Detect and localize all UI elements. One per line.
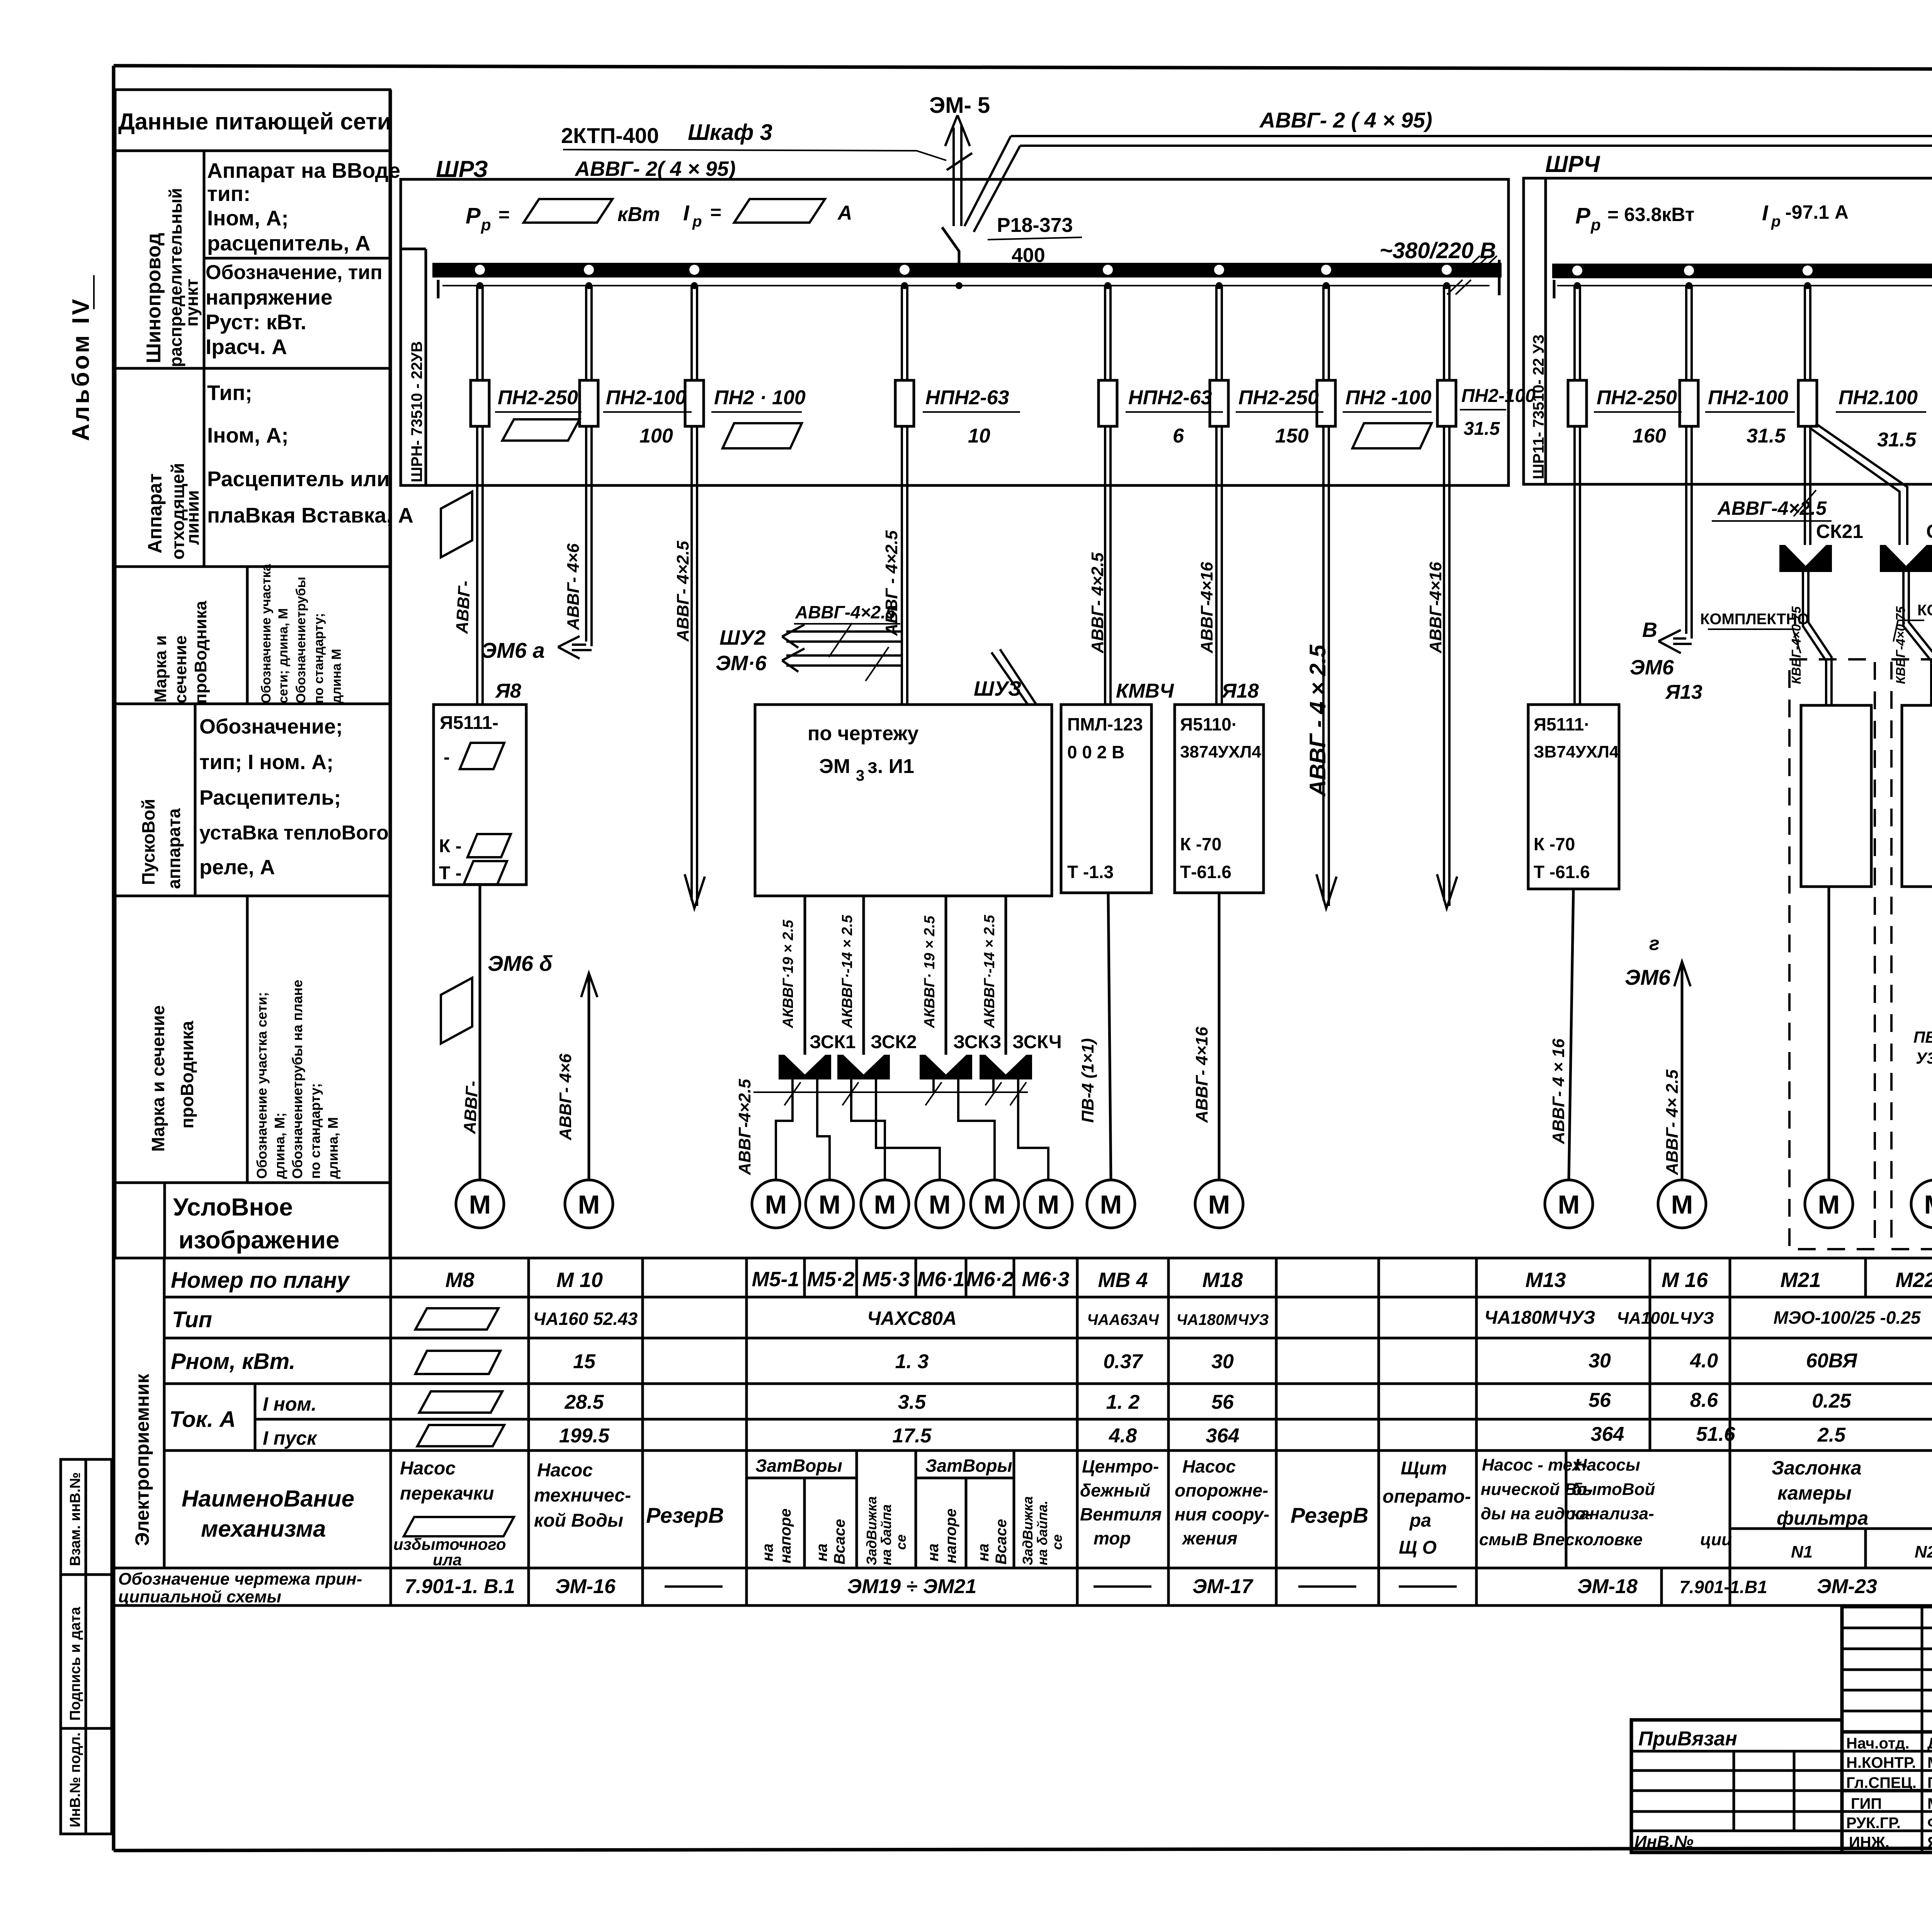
svg-text:ЗСК1: ЗСК1 [810, 1032, 856, 1052]
svg-text:ПМЛ-123: ПМЛ-123 [1067, 714, 1143, 734]
svg-text:ПН2-250: ПН2-250 [498, 386, 578, 409]
svg-text:3.5: 3.5 [898, 1391, 926, 1413]
svg-text:АВВГ-: АВВГ- [460, 1080, 482, 1134]
valve ЗСК3 gate symbol [920, 1055, 972, 1079]
svg-text:= 63.8кВт: = 63.8кВт [1607, 204, 1694, 225]
svg-text:К -70: К -70 [1180, 834, 1221, 854]
svg-text:ШУ2: ШУ2 [719, 626, 765, 649]
svg-text:длина М: длина М [329, 649, 344, 703]
motor М22 [1911, 1180, 1932, 1228]
svg-text:3874УХЛ4: 3874УХЛ4 [1180, 742, 1261, 761]
starter Я13 box Я5111 [1528, 705, 1619, 889]
svg-text:ИНЖ.: ИНЖ. [1849, 1834, 1889, 1851]
svg-text:Iрасч. А: Iрасч. А [206, 335, 287, 359]
motor М8 [456, 1180, 504, 1228]
svg-text:М: М [1671, 1190, 1693, 1219]
svg-text:Обозначение участка: Обозначение участка [259, 564, 274, 703]
svg-text:М8: М8 [445, 1268, 474, 1292]
svg-text:ЭМ- 5: ЭМ- 5 [929, 93, 990, 118]
svg-text:М: М [469, 1190, 491, 1219]
fuse ПН2-100/100 (f2) [580, 380, 692, 447]
svg-text:р: р [1771, 213, 1781, 230]
switch label ПВ3-10 У356 SАВ1 [1913, 1028, 1932, 1094]
svg-text:31.5: 31.5 [1464, 419, 1500, 439]
svg-text:М 16: М 16 [1662, 1268, 1708, 1292]
fuse ПН2-100 (f3) [685, 380, 806, 448]
svg-text:распределительный: распределительный [166, 188, 185, 367]
svg-text:31.5: 31.5 [1877, 429, 1917, 451]
svg-text:НПН2-63: НПН2-63 [925, 386, 1009, 409]
svg-text:ции: ции [1700, 1530, 1732, 1549]
svg-text:Iном, А;: Iном, А; [207, 423, 289, 447]
label КОМПЛЕКТНО (М22) [1893, 602, 1932, 642]
svg-text:ЧА180МЧУЗ: ЧА180МЧУЗ [1484, 1308, 1595, 1328]
fuse ПН2-100/31.5 (g2) [1680, 380, 1795, 447]
svg-text:М: М [929, 1190, 951, 1219]
valve СК21 symbol [1779, 545, 1832, 572]
svg-text:М6·3: М6·3 [1022, 1268, 1069, 1291]
svg-text:Т -1.3: Т -1.3 [1067, 862, 1114, 882]
wire ШУ3 output 1 [804, 896, 806, 1055]
valve ЗСК1 gate symbol [779, 1055, 831, 1079]
svg-text:Обозначение;: Обозначение; [199, 715, 343, 738]
svg-text:Т-61.6: Т-61.6 [1180, 862, 1231, 882]
svg-text:N2: N2 [1915, 1542, 1932, 1561]
svg-text:ЧА100LЧУЗ: ЧА100LЧУЗ [1617, 1309, 1714, 1328]
svg-text:364: 364 [1206, 1425, 1240, 1447]
table Наименование М8 (Насос перекачки избыточного ила) [393, 1458, 514, 1569]
cable label АВВГ- with parallelogram (feeder1) [441, 492, 474, 635]
parallelogram Iном М8 [419, 1391, 502, 1413]
svg-text:М: М [1208, 1190, 1230, 1219]
svg-text:ПН2-250: ПН2-250 [1238, 386, 1319, 409]
svg-text:8.6: 8.6 [1690, 1389, 1718, 1411]
svg-text:сети; длина, М: сети; длина, М [276, 608, 291, 703]
svg-text:М: М [1558, 1190, 1580, 1219]
svg-text:КВВГ-4×0.75: КВВГ-4×0.75 [1893, 606, 1908, 684]
svg-text:техничес-: техничес- [534, 1485, 631, 1506]
svg-text:фильтра: фильтра [1777, 1507, 1868, 1529]
svg-text:160: 160 [1633, 425, 1666, 447]
bus ШР4 main busbar [1552, 258, 1932, 298]
svg-text:М: М [1037, 1190, 1060, 1219]
wire feeder 3 (bus1) long down arrow [685, 286, 705, 908]
svg-text:-: - [444, 747, 450, 768]
svg-text:ципиальной схемы: ципиальной схемы [118, 1587, 281, 1606]
svg-text:Электроприемник: Электроприемник [131, 1374, 153, 1546]
svg-text:напоре: напоре [777, 1508, 794, 1563]
wire feeder 4 (bus1) to ШУ3 [902, 286, 907, 705]
svg-text:Марка и: Марка и [151, 635, 170, 703]
left margin stamp column [61, 1459, 112, 1834]
svg-text:АВВГ-4×2.5: АВВГ-4×2.5 [1717, 497, 1827, 519]
svg-text:ДАНИЛОВ: ДАНИЛОВ [1927, 1735, 1932, 1752]
svg-text:АВВГ- 4× 2.5: АВВГ- 4× 2.5 [1663, 1069, 1682, 1175]
svg-text:М22: М22 [1895, 1268, 1932, 1292]
svg-text:51.6: 51.6 [1696, 1423, 1735, 1445]
cable label АВВГ-4х2.5 above СК21-СК22 [1712, 490, 1832, 521]
svg-text:по чертежу: по чертежу [808, 722, 918, 745]
svg-text:ШР11- 73510- 22 УЗ: ШР11- 73510- 22 УЗ [1530, 334, 1547, 479]
motor М21 [1805, 1180, 1853, 1228]
signature names column [1927, 1735, 1932, 1851]
svg-text:ЧАА63АЧ: ЧАА63АЧ [1087, 1311, 1159, 1328]
svg-text:-97.1 А: -97.1 А [1785, 201, 1849, 223]
header band 5 box (Марка и сечение проводника 2) [115, 896, 390, 1183]
svg-text:Р: Р [1575, 203, 1590, 228]
svg-text:Я13: Я13 [1665, 681, 1702, 703]
svg-text:Р18-373: Р18-373 [997, 214, 1073, 237]
svg-text:6: 6 [1173, 425, 1184, 447]
svg-text:Насос: Насос [400, 1458, 456, 1479]
wire Я18 to motor М18 [1218, 893, 1221, 1180]
svg-text:Щ О: Щ О [1399, 1537, 1437, 1558]
wire ШУ3 output 2 [862, 896, 865, 1055]
svg-text:4.8: 4.8 [1109, 1425, 1137, 1447]
svg-text:150: 150 [1275, 425, 1309, 447]
header band 1 box (Шинопровод распределительный пункт) [115, 151, 400, 368]
svg-text:жения: жения [1181, 1528, 1237, 1548]
svg-text:операто-: операто- [1383, 1486, 1471, 1507]
continuation arrow г ЭМ6 and wire to М16 [1625, 933, 1690, 1180]
svg-text:реле, А: реле, А [199, 856, 275, 879]
svg-text:Я5110·: Я5110· [1180, 714, 1237, 734]
wire feeder 2 (bus2) continuation В ЭМ6 [1630, 286, 1692, 679]
motor М18 [1195, 1180, 1243, 1228]
svg-text:АВВГ- 4×16: АВВГ- 4×16 [1192, 1027, 1211, 1123]
svg-text:ПН2 -100: ПН2 -100 [1345, 386, 1431, 409]
signature labels column [1846, 1735, 1917, 1851]
svg-text:М: М [1100, 1190, 1122, 1219]
fuse ПН2-250 (f1) [471, 380, 582, 441]
svg-text:на: на [975, 1544, 992, 1561]
starter Я18 box Я5110 [1175, 705, 1264, 893]
svg-text:N1: N1 [1791, 1542, 1813, 1561]
svg-text:30: 30 [1588, 1350, 1611, 1372]
svg-text:АКВВГ·-14 × 2.5: АКВВГ·-14 × 2.5 [839, 914, 855, 1028]
svg-text:31.5: 31.5 [1747, 425, 1786, 447]
svg-text:ЭМ6 а: ЭМ6 а [481, 638, 545, 662]
fuse ПН2-100 (f7) [1317, 380, 1432, 448]
wire cable route АВВГ-2(4х95) to bus2 [1011, 136, 1932, 146]
svg-text:4.0: 4.0 [1690, 1350, 1718, 1372]
svg-text:АВВГ- 2 ( 4 × 95): АВВГ- 2 ( 4 × 95) [1259, 108, 1432, 132]
svg-text:Тип;: Тип; [207, 381, 252, 405]
svg-text:~380/220 В: ~380/220 В [1379, 238, 1496, 263]
motor М5-2 [806, 1180, 854, 1228]
table row Iном values [564, 1389, 1932, 1415]
svg-text:ЭМ-23: ЭМ-23 [1817, 1575, 1877, 1598]
svg-text:изображение: изображение [179, 1226, 340, 1254]
svg-text:ЭМ6: ЭМ6 [1625, 965, 1671, 989]
svg-text:ЗатВоры: ЗатВоры [925, 1456, 1012, 1476]
svg-text:проВодника: проВодника [177, 1021, 197, 1129]
svg-text:28.5: 28.5 [564, 1391, 604, 1413]
ShR3 cabinet enclosure box [401, 179, 1509, 485]
motor М6-2 [971, 1180, 1019, 1228]
wire feeder 2 (bus1) [586, 286, 592, 646]
motor М13 [1545, 1180, 1593, 1228]
svg-text:МОСЕЕНКО: МОСЕЕНКО [1927, 1795, 1932, 1812]
table Наименование Задвижка на байпасе 1 [864, 1496, 909, 1565]
svg-text:канализа-: канализа- [1571, 1504, 1654, 1523]
svg-text:МОСЕЕНКО: МОСЕЕНКО [1927, 1754, 1932, 1771]
wire СК22 to unit М22 [1903, 572, 1932, 705]
svg-text:механизма: механизма [201, 1516, 326, 1542]
svg-text:199.5: 199.5 [559, 1425, 610, 1447]
table grid vertical lines [164, 90, 1932, 1605]
table row Рном values [573, 1350, 1932, 1375]
title block outer box [1842, 1607, 1932, 1852]
svg-text:δежный: δежный [1080, 1480, 1150, 1500]
stamp Привязан box [1631, 1720, 1842, 1852]
svg-text:тор: тор [1094, 1528, 1131, 1548]
svg-text:М6·1: М6·1 [917, 1268, 964, 1291]
svg-text:РУК.ГР.: РУК.ГР. [1846, 1815, 1901, 1832]
svg-text:М 10: М 10 [556, 1268, 603, 1292]
svg-text:Обозначение участка сети;: Обозначение участка сети; [254, 992, 270, 1179]
svg-text:ЧАХС80А: ЧАХС80А [867, 1308, 957, 1329]
svg-text:тип; I ном. А;: тип; I ном. А; [199, 751, 333, 774]
svg-text:Насос: Насос [1182, 1456, 1236, 1476]
table Наименование М18 (Насос опорожнения сооружения) [1175, 1456, 1269, 1548]
svg-text:М: М [1924, 1190, 1932, 1219]
svg-text:г: г [1649, 933, 1660, 954]
svg-text:Обозначение, тип: Обозначение, тип [206, 261, 383, 284]
table Наименование МВ4 (Центробежный вентилятор) [1080, 1456, 1162, 1548]
svg-text:δытоВой: δытоВой [1572, 1480, 1655, 1499]
svg-text:56: 56 [1588, 1389, 1611, 1411]
svg-text:М: М [819, 1190, 841, 1219]
svg-text:I: I [1762, 201, 1769, 225]
wire Я13 to motor М13 [1569, 889, 1573, 1180]
svg-text:Щит: Щит [1401, 1458, 1447, 1479]
svg-text:М: М [984, 1190, 1006, 1219]
svg-text:А: А [837, 202, 852, 224]
svg-text:ЭМ-16: ЭМ-16 [555, 1575, 616, 1598]
svg-text:ила: ила [433, 1551, 462, 1569]
svg-text:3: 3 [856, 767, 864, 784]
svg-text:Аппарат: Аппарат [144, 473, 166, 553]
svg-text:Вентиля: Вентиля [1080, 1504, 1162, 1524]
wire ШУ3 output 4 [1005, 896, 1007, 1055]
fuse ПН2.100/31.5 (g3) [1798, 380, 1926, 451]
fuse НПН2-63/10 (f4) [895, 380, 1020, 447]
svg-text:Обозначение чертежа прин-: Обозначение чертежа прин- [118, 1570, 362, 1588]
svg-text:К -: К - [439, 836, 462, 856]
table Наименование М10 (Насос технической воды) [534, 1460, 631, 1531]
svg-text:Гл.СПЕЦ.: Гл.СПЕЦ. [1846, 1774, 1917, 1791]
svg-text:ЗСК2: ЗСК2 [871, 1032, 917, 1052]
svg-text:Рном, кВт.: Рном, кВт. [171, 1349, 295, 1374]
svg-text:на: на [925, 1544, 942, 1561]
svg-text:пункт: пункт [182, 279, 202, 327]
svg-text:ПриВязан: ПриВязан [1638, 1728, 1737, 1750]
svg-text:Центро-: Центро- [1082, 1456, 1159, 1476]
supply label 2КТП-400 Шкаф 3 / АВВГ-2(4х95) [561, 120, 946, 180]
svg-text:ПН2-250: ПН2-250 [1597, 386, 1677, 409]
wire СК21 to unit М21 [1803, 572, 1832, 705]
svg-text:ШУЗ: ШУЗ [974, 677, 1021, 700]
motor М6-3 [1024, 1180, 1072, 1228]
svg-text:I пуск: I пуск [263, 1427, 318, 1449]
svg-text:Т -: Т - [439, 863, 462, 884]
svg-text:2.5: 2.5 [1817, 1424, 1846, 1446]
valve СК22 symbol [1880, 545, 1932, 572]
svg-text:0.37: 0.37 [1103, 1350, 1143, 1373]
svg-text:0.25: 0.25 [1812, 1390, 1851, 1412]
header band 3 box (Марка и сечение проводника 1) [115, 564, 390, 704]
riser ЭМ-5 with switch Р18-373/400 [929, 93, 1020, 271]
header band 4 box (Пусковой аппарата) [115, 704, 390, 896]
svg-text:ИнВ.№ подл.: ИнВ.№ подл. [67, 1732, 83, 1827]
svg-text:ШРН- 73510 - 22УВ: ШРН- 73510 - 22УВ [408, 341, 425, 482]
svg-text:М: М [874, 1190, 896, 1219]
svg-text:ЧА160 52.43: ЧА160 52.43 [533, 1309, 638, 1329]
svg-text:ра: ра [1409, 1510, 1431, 1531]
header band 6 box (Условное изображение) [115, 1183, 390, 1258]
svg-text:М21: М21 [1780, 1268, 1821, 1292]
label Pp= parallelogram kVt Ip= parallelogram A [466, 199, 852, 234]
table Наименование Затворы group 1 [755, 1456, 848, 1565]
svg-text:ния соору-: ния соору- [1175, 1504, 1269, 1524]
title block revision grid [1842, 1607, 1932, 1732]
svg-text:АВВГ- 4×6: АВВГ- 4×6 [556, 1054, 575, 1141]
svg-text:Обозначениетрубы на плане: Обозначениетрубы на плане [289, 980, 305, 1179]
svg-text:Нач.отд.: Нач.отд. [1846, 1735, 1909, 1752]
svg-text:плаВкая Вставка, А: плаВкая Вставка, А [207, 503, 413, 527]
svg-text:15: 15 [573, 1350, 596, 1373]
svg-text:М18: М18 [1202, 1268, 1243, 1292]
svg-text:ФЕДОРОВА: ФЕДОРОВА [1927, 1815, 1932, 1832]
table Наименование М13 (Насос технической воды на гидросмыв) [1479, 1456, 1643, 1549]
svg-text:ЭМ·6: ЭМ·6 [716, 652, 767, 675]
svg-text:ГОЛЬЦМАН: ГОЛЬЦМАН [1927, 1774, 1932, 1791]
wire gate outputs to connector line [753, 1079, 1028, 1105]
svg-text:Марка и сечение: Марка и сечение [148, 1005, 168, 1152]
svg-text:Р: Р [466, 203, 481, 228]
svg-text:КОМПЛЕКТНО: КОМПЛЕКТНО [1700, 611, 1809, 628]
label Рр=63.8кВт Iр-97.1А [1575, 201, 1849, 234]
table Наименование М16 (Насосы бытовой канализации) [1571, 1456, 1732, 1549]
svg-text:Шкаф 3: Шкаф 3 [688, 120, 772, 145]
svg-text:Шинопровод: Шинопровод [143, 233, 165, 363]
svg-text:Насос - тех-: Насос - тех- [1482, 1456, 1587, 1474]
table Наименование М21-М22 (Заслонка камеры фильтра) [1772, 1457, 1932, 1561]
table row Номер по плану values [445, 1268, 1932, 1292]
svg-text:ЗадВижка: ЗадВижка [864, 1496, 879, 1565]
svg-text:на δайпа.: на δайпа. [1034, 1500, 1050, 1565]
svg-text:МВ 4: МВ 4 [1098, 1268, 1148, 1292]
svg-text:з. И1: з. И1 [867, 755, 914, 778]
svg-text:АВВГ-: АВВГ- [452, 580, 474, 634]
svg-text:ЗСКЗ: ЗСКЗ [953, 1032, 1002, 1052]
motor М5-3 [861, 1180, 909, 1228]
wire steps to motors М5-1..М6-3 [776, 1092, 1048, 1180]
svg-text:У356: У356 [1916, 1049, 1932, 1067]
svg-text:кой Воды: кой Воды [534, 1510, 623, 1531]
packaged unit М22 dashed box [1891, 659, 1932, 1249]
svg-text:ЭМ6 δ: ЭМ6 δ [488, 951, 553, 976]
svg-text:опорожне-: опорожне- [1175, 1480, 1268, 1500]
svg-text:М5·2: М5·2 [807, 1268, 854, 1291]
valve ЗСК2 gate symbol [837, 1055, 890, 1079]
svg-text:ЗатВоры: ЗатВоры [755, 1456, 842, 1476]
svg-text:СК21: СК21 [1816, 521, 1863, 542]
table row Тип values [533, 1308, 1932, 1329]
fuse НПН2-63/6 (f5) [1099, 380, 1223, 447]
svg-text:АКВВГ·19 × 2.5: АКВВГ·19 × 2.5 [780, 919, 796, 1028]
motor МВ4 [1087, 1180, 1135, 1228]
svg-text:Руст: кВт.: Руст: кВт. [206, 310, 306, 334]
wire feeder 1 (bus2) to Я13 [1575, 286, 1580, 705]
svg-text:Аппарат на ВВоде: Аппарат на ВВоде [207, 158, 400, 182]
svg-text:I ном.: I ном. [263, 1393, 316, 1415]
wire feeder 1 (bus1) [477, 286, 483, 705]
cable arrows ШУ2 / ЭМ-6 [716, 602, 902, 681]
svg-text:100: 100 [639, 425, 673, 447]
svg-text:р: р [1590, 216, 1601, 234]
svg-text:Альбом IV: Альбом IV [68, 297, 94, 441]
dash marks in Обозначение row [665, 1585, 1932, 1588]
starter Я8 box Я5111 [434, 705, 526, 885]
wire diagonal into ШУ3 [992, 649, 1036, 705]
svg-text:смыВ Впесколовке: смыВ Впесколовке [1479, 1530, 1643, 1549]
svg-text:2КТП-400: 2КТП-400 [561, 123, 659, 148]
svg-text:КОМПЛЕКТНО: КОМПЛЕКТНО [1917, 602, 1932, 619]
svg-text:НаименоВание: НаименоВание [182, 1486, 354, 1512]
wire feeder 6 (bus1) to Я18 [1216, 286, 1222, 705]
control cabinet ШУ3 box [755, 677, 1052, 896]
motor М10 [565, 1180, 613, 1228]
svg-text:М: М [578, 1190, 600, 1219]
svg-text:МЭО-100/25 -0.25: МЭО-100/25 -0.25 [1774, 1308, 1921, 1328]
svg-text:1. 3: 1. 3 [895, 1350, 929, 1373]
fuse ПН2-100/31.5 (f8) [1437, 380, 1536, 439]
fuse ПН2-250/160 (g1) [1568, 380, 1682, 447]
motor М6-1 [916, 1180, 964, 1228]
wire feeder 3 (bus2) to СК21 and СК22 [1805, 286, 1907, 545]
svg-text:ЗВ74УХЛ4: ЗВ74УХЛ4 [1534, 742, 1619, 761]
svg-text:Подпись и дата: Подпись и дата [67, 1607, 83, 1721]
svg-text:17.5: 17.5 [892, 1425, 932, 1447]
svg-text:ПН2-100: ПН2-100 [606, 386, 686, 409]
bus2 connection dots [1572, 266, 1932, 289]
parallelogram Рном М8 [415, 1351, 500, 1374]
parallelogram Iпуск М8 [417, 1425, 504, 1446]
svg-text:=: = [710, 201, 721, 223]
svg-text:ЯНЧЕНКО: ЯНЧЕНКО [1927, 1834, 1932, 1851]
ShR4 cabinet enclosure box [1524, 178, 1932, 484]
table row Обозначение values [405, 1575, 1932, 1598]
header band 2 box (Аппарат отходящей линии) [115, 368, 413, 567]
svg-text:Я5111·: Я5111· [1534, 714, 1590, 734]
svg-text:Расцепитель или: Расцепитель или [207, 467, 390, 491]
fuse ПН2-250/150 (f6) [1210, 380, 1323, 447]
table row Iпуск values [559, 1423, 1932, 1448]
svg-text:В: В [1642, 618, 1657, 642]
svg-text:ПН2.100: ПН2.100 [1838, 386, 1918, 409]
svg-text:ПН2 · 100: ПН2 · 100 [714, 386, 806, 409]
svg-text:длина, М;: длина, М; [272, 1112, 287, 1179]
table Наименование Задвижка на байпасе 2 [1020, 1496, 1065, 1565]
svg-text:ЧА180МЧУЗ: ЧА180МЧУЗ [1176, 1311, 1269, 1328]
switch label Р18-373/400 (bus1) [988, 214, 1082, 267]
svg-text:на δайпа: на δайпа [878, 1504, 894, 1565]
svg-text:Насосы: Насосы [1575, 1456, 1640, 1474]
svg-text:се: се [893, 1534, 909, 1550]
svg-text:ПускоВой: ПускоВой [138, 799, 158, 885]
